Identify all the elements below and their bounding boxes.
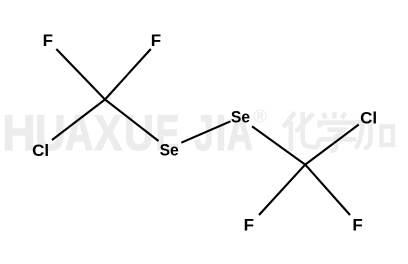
svg-text:F: F — [151, 31, 161, 50]
svg-text:I: I — [216, 106, 226, 161]
svg-text:Se: Se — [160, 141, 179, 160]
svg-text:F: F — [43, 31, 53, 50]
svg-text:Se: Se — [231, 108, 250, 127]
svg-text:X: X — [94, 104, 122, 161]
svg-text:Cl: Cl — [32, 141, 49, 160]
svg-text:®: ® — [253, 106, 267, 127]
svg-text:F: F — [352, 215, 362, 234]
svg-text:H: H — [2, 105, 36, 161]
svg-text:U: U — [124, 104, 154, 161]
svg-text:Cl: Cl — [360, 108, 377, 127]
svg-text:F: F — [244, 215, 254, 234]
